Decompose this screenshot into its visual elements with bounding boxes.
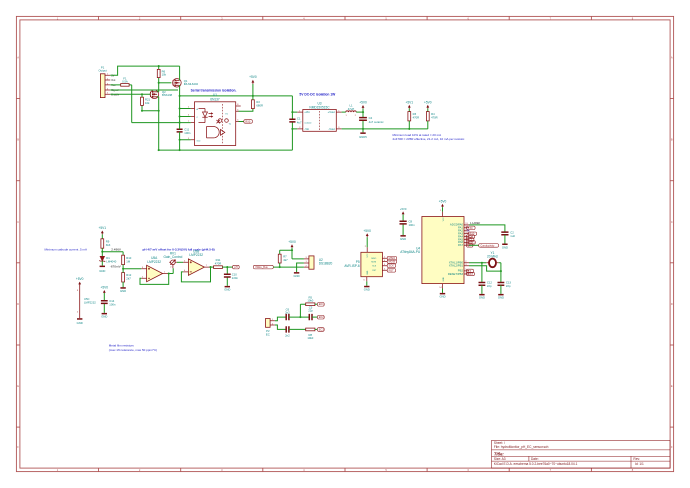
svg-text:MISO: MISO <box>371 258 376 260</box>
svg-text:Gnd: Gnd <box>197 141 201 143</box>
wire EC bottom branch <box>275 325 286 329</box>
svg-text:+Vin: +Vin <box>304 110 310 114</box>
note cathode current <box>45 248 88 252</box>
note serial isolation <box>191 89 237 93</box>
wire U2 ground <box>297 263 304 272</box>
resistor R21 <box>141 94 151 111</box>
trimmer RV1 Gain_Control <box>164 252 183 269</box>
connector P2 EC <box>266 319 275 337</box>
svg-text:U1: U1 <box>213 93 217 97</box>
svg-text:Title:: Title: <box>494 451 505 456</box>
global label INT <box>467 269 474 273</box>
svg-text:GND: GND <box>364 288 370 292</box>
svg-text:+5V0: +5V0 <box>101 286 109 290</box>
svg-text:EC3: EC3 <box>319 327 325 331</box>
svg-text:MOSI: MOSI <box>389 260 396 264</box>
svg-text:C: C <box>671 220 673 224</box>
svg-text:ATtiny84A-PU: ATtiny84A-PU <box>400 250 421 254</box>
wire +5V to R7 and U2 <box>280 250 304 259</box>
svg-text:4u7 ceramic: 4u7 ceramic <box>369 120 385 124</box>
connector P1 Output <box>98 66 119 98</box>
svg-text:680R: 680R <box>256 103 263 107</box>
svg-text:VCC: VCC <box>367 253 369 258</box>
label 2.496V <box>111 248 122 252</box>
svg-text:100n: 100n <box>109 303 116 307</box>
note minimum load <box>393 133 466 141</box>
svg-text:P2: P2 <box>266 329 270 333</box>
capacitor C11 <box>177 96 191 150</box>
svg-text:C8: C8 <box>409 220 413 224</box>
ground C2 <box>502 244 508 250</box>
svg-text:SCK: SCK <box>389 264 395 268</box>
svg-text:Metal film resistors: Metal film resistors <box>109 343 135 347</box>
wire 1wire data <box>273 266 304 268</box>
svg-text:D1: D1 <box>106 256 110 260</box>
capacitor C8 decoupling <box>400 207 416 235</box>
resistor R7 <box>278 250 288 267</box>
svg-text:(max 1% tolerance, max 50 ppm/: (max 1% tolerance, max 50 ppm/°C) <box>109 348 157 352</box>
wire P1 pin4 signal <box>110 89 178 91</box>
svg-text:GND: GND <box>498 296 504 300</box>
node divider <box>122 268 141 270</box>
ground R12 <box>120 287 126 293</box>
temperature sensor U2 DS18B20 <box>304 256 333 269</box>
svg-text:LMP2232: LMP2232 <box>84 301 96 305</box>
global label RX0 <box>244 120 253 124</box>
resistor R6 <box>157 66 166 83</box>
svg-text:BSS138: BSS138 <box>162 93 173 97</box>
svg-text:Q1: Q1 <box>184 79 188 83</box>
svg-text:GND: GND <box>367 270 369 275</box>
inductor L1 <box>342 104 363 118</box>
opto right pins <box>236 104 241 122</box>
power +5V0 MCU <box>439 199 447 211</box>
label -670mV <box>110 265 122 269</box>
diode D1 LM4040 <box>99 252 116 266</box>
svg-text:A: A <box>671 56 673 60</box>
ground GND5 <box>359 128 367 139</box>
svg-text:C14: C14 <box>109 299 115 303</box>
svg-text:+5V0: +5V0 <box>363 229 371 233</box>
svg-text:EC: EC <box>266 333 270 337</box>
power +5V0 for R4 <box>424 100 432 111</box>
note DC-DC isolation <box>299 93 336 97</box>
power +5V0 ISP <box>363 229 371 248</box>
global label EC1 <box>317 302 324 306</box>
svg-text:+5V1: +5V1 <box>406 100 414 104</box>
wire opto left pins <box>180 107 195 140</box>
global label MISO <box>387 256 396 260</box>
ground U2 <box>294 272 300 278</box>
resistor R5 EC <box>306 295 318 305</box>
wire crystal left node down <box>481 263 483 283</box>
svg-text:PA7: PA7 <box>458 243 463 247</box>
note metal film <box>109 343 157 352</box>
svg-text:D: D <box>671 302 673 306</box>
svg-text:+5V0: +5V0 <box>424 100 432 104</box>
svg-text:10k: 10k <box>145 101 150 105</box>
svg-text:C10: C10 <box>232 273 238 277</box>
wire U5A feedback <box>140 272 170 284</box>
power +5V1 analog <box>99 226 107 239</box>
svg-text:3k3: 3k3 <box>106 243 111 247</box>
svg-text:Rev:: Rev: <box>633 457 640 461</box>
node vref <box>101 251 123 253</box>
svg-text:Out: Out <box>111 79 115 82</box>
svg-text:Conductivity: Conductivity <box>480 243 495 247</box>
wire P1 pin5 to Q2 gate <box>110 93 150 95</box>
svg-text:GND: GND <box>101 315 107 319</box>
global label MISO pin <box>467 240 476 244</box>
global label pH <box>233 265 240 269</box>
svg-text:C12: C12 <box>487 281 493 285</box>
svg-text:En: En <box>226 114 228 116</box>
ground C14 <box>101 313 107 319</box>
ground P5 <box>364 281 370 291</box>
capacitor C1 <box>289 116 302 124</box>
svg-text:RST: RST <box>389 268 395 272</box>
svg-text:22p: 22p <box>506 284 511 288</box>
svg-text:+5V0: +5V0 <box>249 75 257 79</box>
svg-text:2n2: 2n2 <box>285 334 290 338</box>
svg-text:R2: R2 <box>256 100 260 104</box>
DC-DC converter U3 NMD150515C <box>297 102 341 132</box>
wire EC bottom to R8 <box>289 328 306 330</box>
svg-text:GND: GND <box>400 237 406 241</box>
svg-text:VCC: VCC <box>443 217 445 222</box>
svg-text:22p: 22p <box>487 284 492 288</box>
wire EC mid node <box>289 304 309 318</box>
svg-text:R9: R9 <box>106 240 110 244</box>
svg-text:DS18B20: DS18B20 <box>319 261 333 265</box>
svg-text:+5V1: +5V1 <box>99 226 107 230</box>
note pH offset <box>143 248 215 252</box>
wire RV1 to U5B <box>177 261 183 263</box>
svg-text:KiCad E.D.A. eeschema 5.0.2-b: KiCad E.D.A. eeschema 5.0.2-bee76a0~70~u… <box>494 462 578 466</box>
connector P5 AVR-ISP-6 <box>344 246 387 282</box>
svg-text:2k7: 2k7 <box>126 277 131 281</box>
svg-text:Date:: Date: <box>531 457 539 461</box>
svg-text:2n2: 2n2 <box>285 311 290 315</box>
resistor R3 <box>408 112 419 129</box>
capacitor C5 <box>308 305 317 320</box>
wire XTAL1 <box>469 262 486 264</box>
svg-text:4k7: 4k7 <box>283 258 288 262</box>
resistor R10 <box>122 252 132 269</box>
svg-text:NMD150515C: NMD150515C <box>309 105 330 109</box>
svg-text:LMP2232: LMP2232 <box>189 253 203 257</box>
svg-text:R4: R4 <box>431 112 435 116</box>
svg-text:5V DC-DC isolation 1W: 5V DC-DC isolation 1W <box>299 93 336 97</box>
svg-text:R12: R12 <box>126 273 132 277</box>
svg-text:GND: GND <box>224 288 230 292</box>
svg-text:47uH: 47uH <box>348 107 355 111</box>
svg-text:EC1: EC1 <box>319 302 325 306</box>
wire R1 to opto input <box>132 85 191 123</box>
svg-text:C1: C1 <box>297 116 301 120</box>
wire opto to RX label <box>239 121 244 123</box>
svg-text:GND: GND <box>99 269 105 273</box>
svg-text:+5V0: +5V0 <box>439 199 447 203</box>
ground C8 <box>400 235 406 241</box>
svg-text:E: E <box>17 384 19 388</box>
wire XTAL2 <box>469 266 501 271</box>
svg-text:+5V0: +5V0 <box>288 240 296 244</box>
svg-text:0.5A: 0.5A <box>122 80 128 84</box>
global label Conductivity <box>469 243 499 247</box>
svg-text:GND: GND <box>439 295 445 299</box>
resistor R12 <box>122 269 132 287</box>
svg-text:EC2: EC2 <box>319 315 325 319</box>
wire R6 to Q1 gate <box>158 82 172 84</box>
svg-text:XTAL2/PB1: XTAL2/PB1 <box>449 264 464 268</box>
svg-text:LMP2232: LMP2232 <box>147 260 161 264</box>
svg-text:22p: 22p <box>308 309 313 313</box>
svg-text:Output: Output <box>98 69 106 73</box>
svg-text:B: B <box>671 138 673 142</box>
ground C10 <box>224 286 230 292</box>
svg-text:GND: GND <box>294 274 300 278</box>
svg-text:B: B <box>17 138 19 142</box>
global label SCL <box>467 238 474 242</box>
svg-text:U5C: U5C <box>84 297 90 301</box>
svg-text:+5V0: +5V0 <box>359 101 367 105</box>
global label RST pin <box>467 272 475 276</box>
svg-text:R7: R7 <box>283 254 287 258</box>
capacitor C6 <box>285 307 290 320</box>
op-amp U5A <box>141 256 168 282</box>
svg-text:R3: R3 <box>413 112 417 116</box>
resistor R4 <box>426 112 437 129</box>
svg-text:A: A <box>17 56 19 60</box>
wire -Vout rail <box>342 128 428 130</box>
svg-text:GND: GND <box>443 277 445 282</box>
ground rail isolated side <box>158 149 293 151</box>
global label pH pin <box>467 243 473 247</box>
svg-text:R10: R10 <box>126 256 132 260</box>
resistor R8 EC <box>306 328 318 340</box>
transistor Q2 BSS138 <box>150 83 172 150</box>
wire R21 bottom row <box>141 110 160 112</box>
svg-text:R11: R11 <box>216 258 221 262</box>
svg-text:pH: pH <box>234 265 237 269</box>
svg-text:Id: 1/1: Id: 1/1 <box>635 462 644 466</box>
label Rx blue <box>467 230 471 233</box>
global label SDA <box>467 235 475 239</box>
svg-text:-Vin: -Vin <box>304 127 309 131</box>
svg-text:+5V0: +5V0 <box>400 207 407 211</box>
ground C13 <box>498 294 504 300</box>
svg-text:Gain_Control: Gain_Control <box>164 255 183 259</box>
capacitor C4 <box>359 112 384 129</box>
svg-text:C13: C13 <box>506 281 512 285</box>
svg-text:D: D <box>17 302 19 306</box>
power +5V0 DS18B20 <box>288 240 296 251</box>
opto-isolator U1 6N137 <box>195 93 236 146</box>
global label TXD <box>467 226 476 230</box>
resistor R2 pullup <box>252 96 263 109</box>
svg-text:C: C <box>17 220 19 224</box>
svg-text:1u0: 1u0 <box>510 234 515 238</box>
wire opto output pullup <box>239 109 253 112</box>
crystal Y1 <box>486 251 498 267</box>
capacitor C7 <box>285 326 290 337</box>
svg-text:10k0: 10k0 <box>307 299 313 303</box>
ground D1 <box>99 266 105 273</box>
global label RXD <box>468 232 477 236</box>
power +5V0 <box>249 75 257 96</box>
svg-text:10k0: 10k0 <box>307 336 313 340</box>
svg-text:+Vout: +Vout <box>328 110 335 114</box>
svg-text:470R: 470R <box>413 115 420 119</box>
capacitor C2 <box>501 230 515 243</box>
svg-text:+5V0: +5V0 <box>76 277 84 281</box>
resistor R1 <box>110 76 131 86</box>
svg-text:AVR-ISP-6: AVR-ISP-6 <box>344 264 360 268</box>
transistor Q1 IRLML6402 <box>173 66 199 96</box>
svg-text:C2: C2 <box>510 230 514 234</box>
power +5V1 for R3 <box>406 100 414 111</box>
label AREF <box>470 222 481 225</box>
capacitor C12 <box>479 281 493 294</box>
svg-text:isolated: isolated <box>304 122 311 125</box>
op-amp power unit U5C <box>76 277 96 318</box>
global label MOSI <box>387 260 396 264</box>
svg-text:470R: 470R <box>431 115 438 119</box>
svg-text:E: E <box>671 384 673 388</box>
resistor R9 <box>101 239 111 252</box>
MCU U4 ATtiny84A <box>400 210 469 289</box>
svg-text:RESET/PB3: RESET/PB3 <box>448 272 464 276</box>
svg-text:-670mV: -670mV <box>110 265 122 269</box>
svg-text:RX0: RX0 <box>245 120 251 124</box>
wire EC top branch <box>275 317 286 321</box>
svg-text:2.496V: 2.496V <box>111 248 122 252</box>
svg-text:4u7: 4u7 <box>297 120 302 124</box>
global label 1Wire_Bus <box>253 265 273 269</box>
svg-text:C4: C4 <box>369 116 373 120</box>
global label EC2 <box>317 315 324 319</box>
node top rail junction <box>158 65 160 67</box>
global label RST <box>387 268 395 272</box>
ground C12 <box>479 294 485 300</box>
capacitor C13 <box>498 281 512 294</box>
svg-text:GND: GND <box>479 296 485 300</box>
power +5V0 output <box>359 101 367 114</box>
svg-text:GND: GND <box>502 245 508 249</box>
wire U5A out to RV1 wiper <box>169 268 174 273</box>
svg-text:GND: GND <box>120 289 126 293</box>
op-amp U5B <box>183 250 210 276</box>
svg-text:1Wire_Bus: 1Wire_Bus <box>255 265 268 269</box>
wire crystal right node <box>499 263 502 283</box>
svg-text:100n: 100n <box>184 131 191 135</box>
svg-text:LM4040: LM4040 <box>106 260 116 264</box>
svg-text:IRLML6402: IRLML6402 <box>184 82 199 86</box>
wire P1 pin1 to top rail <box>110 66 179 75</box>
svg-text:100n: 100n <box>409 223 416 227</box>
global label SCK <box>387 264 395 268</box>
wire AREF to C2 <box>469 225 505 232</box>
svg-text:2x470R = 235R effective, 21.2: 2x470R = 235R effective, 21.2 mA, 10 mA … <box>393 137 466 141</box>
svg-text:GND5: GND5 <box>359 135 367 139</box>
global label EC3 <box>317 327 324 331</box>
resistor R11 <box>211 258 233 268</box>
capacitor C14 decoupling <box>101 286 116 313</box>
svg-text:-Vout: -Vout <box>328 127 335 131</box>
wire Q1 drain bus <box>179 95 293 97</box>
svg-text:220n: 220n <box>232 276 239 280</box>
svg-text:Size: A3: Size: A3 <box>494 457 506 461</box>
svg-text:6N137: 6N137 <box>210 97 220 101</box>
wire U5B feedback <box>181 266 211 282</box>
svg-text:pH 4/7 mV offset for 0-3.3V(5V: pH 4/7 mV offset for 0-3.3V(5V) full sca… <box>143 248 215 252</box>
ground U5C <box>77 318 83 325</box>
svg-text:Minimum cathode current .5 mA: Minimum cathode current .5 mA <box>45 248 88 252</box>
ground MCU <box>439 289 445 299</box>
svg-text:MOSI: MOSI <box>371 261 376 263</box>
svg-text:File: hydroMonitor_pH_EC_senso: File: hydroMonitor_pH_EC_sensor.sch <box>494 445 549 449</box>
svg-text:10k: 10k <box>162 73 167 77</box>
wire DC-DC input <box>291 96 297 150</box>
svg-text:470R: 470R <box>215 262 222 266</box>
capacitor C10 <box>224 266 238 286</box>
title block <box>492 440 671 468</box>
svg-text:GND: GND <box>77 321 83 325</box>
svg-text:RST: RST <box>468 272 474 276</box>
